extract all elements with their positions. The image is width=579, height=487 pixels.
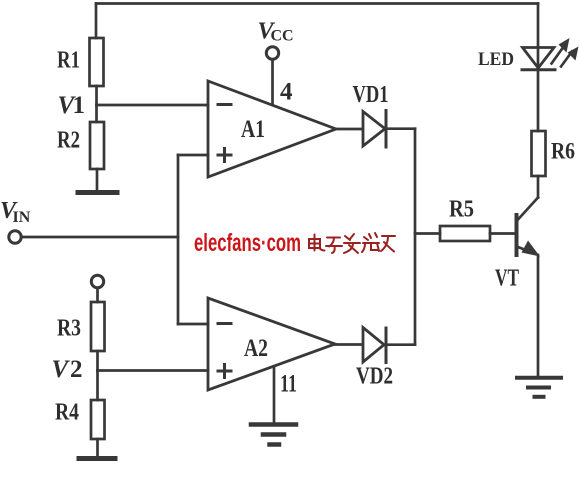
svg-text:11: 11 xyxy=(280,371,297,398)
svg-text:R1: R1 xyxy=(57,48,80,74)
svg-text:VD2: VD2 xyxy=(356,364,393,390)
svg-text:LED: LED xyxy=(478,49,514,70)
svg-text:4: 4 xyxy=(280,79,293,106)
svg-text:CC: CC xyxy=(271,28,294,45)
svg-text:elecfans·com: elecfans·com xyxy=(194,229,301,257)
svg-text:VD1: VD1 xyxy=(353,82,389,108)
svg-text:R6: R6 xyxy=(551,139,575,164)
svg-text:A1: A1 xyxy=(241,116,265,143)
svg-text:R2: R2 xyxy=(57,128,80,154)
svg-text:2: 2 xyxy=(70,356,83,383)
svg-text:1: 1 xyxy=(73,92,86,119)
svg-text:IN: IN xyxy=(13,209,31,226)
svg-text:VT: VT xyxy=(495,266,519,292)
svg-text:V: V xyxy=(52,356,71,383)
svg-text:A2: A2 xyxy=(244,335,268,362)
svg-text:R5: R5 xyxy=(449,197,474,223)
svg-text:R4: R4 xyxy=(55,400,79,426)
svg-text:R3: R3 xyxy=(57,316,81,342)
